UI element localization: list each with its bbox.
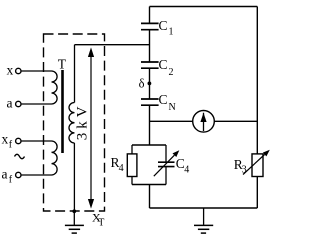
svg-text:x: x bbox=[7, 62, 14, 77]
svg-text:4: 4 bbox=[184, 165, 189, 176]
current source (detector) bbox=[193, 111, 215, 133]
svg-text:a: a bbox=[7, 95, 13, 110]
svg-text:C: C bbox=[159, 57, 168, 72]
wire branch to current source bbox=[150, 120, 193, 122]
wire chain segment above C1 bbox=[149, 7, 151, 24]
svg-text:T: T bbox=[58, 56, 67, 71]
wire top bbox=[150, 6, 258, 8]
wire secondary bottom lead bbox=[73, 143, 75, 211]
terminal af bbox=[2, 167, 22, 186]
svg-text:3kV: 3kV bbox=[75, 102, 91, 140]
label R4 bbox=[111, 155, 124, 174]
primary winding lower (xf-af) bbox=[21, 141, 57, 175]
wire secondary to capacitor chain bbox=[75, 44, 150, 46]
label XT bbox=[92, 210, 104, 228]
R4 C4 parallel network frame bbox=[132, 145, 166, 185]
capacitor CN bbox=[141, 99, 159, 105]
ground (main circuit) bbox=[194, 208, 213, 233]
wire bottom bbox=[150, 207, 258, 209]
label C4 bbox=[176, 156, 190, 176]
terminal x bbox=[7, 62, 22, 77]
terminal a bbox=[7, 95, 22, 110]
secondary HV winding bbox=[69, 103, 75, 143]
label CN bbox=[159, 92, 176, 113]
node delta bbox=[148, 82, 152, 86]
transformer core bbox=[61, 70, 64, 153]
wire secondary top lead bbox=[74, 45, 76, 103]
terminal xf bbox=[2, 132, 22, 151]
svg-text:3: 3 bbox=[242, 165, 247, 176]
AC source symbol ~ bbox=[15, 154, 25, 158]
svg-text:N: N bbox=[169, 102, 176, 113]
svg-text:2: 2 bbox=[169, 67, 174, 78]
wire chain CN down to network bbox=[149, 105, 151, 145]
primary winding upper (x-a) bbox=[21, 71, 57, 104]
wire current source to right side bbox=[214, 120, 257, 122]
dashed enclosure around transformer T bbox=[44, 34, 105, 211]
wire chain C1 to C2 bbox=[149, 30, 151, 62]
capacitor C1 bbox=[141, 23, 159, 29]
variable capacitor C4 bbox=[154, 150, 180, 176]
svg-text:C: C bbox=[159, 92, 168, 107]
capacitor C2 bbox=[141, 62, 159, 68]
svg-text:4: 4 bbox=[119, 163, 124, 174]
ground (transformer) bbox=[65, 211, 84, 233]
svg-text:x: x bbox=[2, 132, 9, 147]
svg-text:T: T bbox=[98, 218, 104, 229]
wire network bottom lead bbox=[149, 185, 151, 209]
svg-text:1: 1 bbox=[169, 27, 174, 38]
wire right side bbox=[256, 7, 258, 209]
variable resistor R3 bbox=[243, 150, 270, 177]
wire chain C2 to CN bbox=[149, 68, 151, 99]
svg-text:δ: δ bbox=[139, 77, 145, 91]
node junction at XT bbox=[72, 209, 76, 213]
svg-text:C: C bbox=[159, 18, 168, 33]
3kV measuring arrow (double headed) bbox=[88, 47, 94, 208]
svg-text:a: a bbox=[2, 167, 8, 182]
label C1 bbox=[159, 18, 174, 38]
label C2 bbox=[159, 57, 174, 78]
label R3 bbox=[234, 157, 247, 176]
resistor R4 bbox=[127, 154, 137, 177]
